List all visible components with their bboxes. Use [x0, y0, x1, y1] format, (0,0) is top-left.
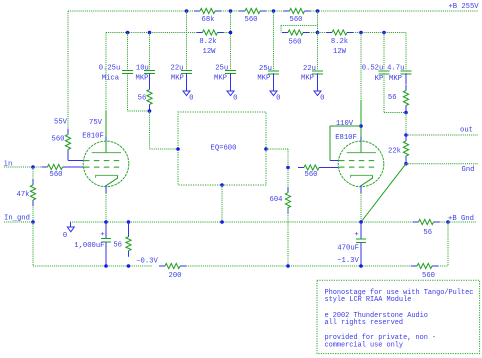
wire 604 bottom lead to bottom rail	[287, 207, 289, 266]
power rail +B: top bus wire y=11	[68, 10, 194, 12]
resistor 56 (below 10u)	[147, 84, 152, 111]
wire rail to +B Gnd node	[440, 221, 449, 223]
capacitor 0.52u KP lead	[383, 33, 385, 71]
svg-text:MKP: MKP	[301, 75, 314, 83]
resistor 56 (cathode bypass)	[128, 222, 130, 237]
junction row2 / 25u column	[229, 31, 233, 35]
junction input node / 47k	[31, 165, 35, 169]
svg-text:In_gnd: In_gnd	[4, 215, 30, 223]
svg-text:0: 0	[63, 232, 67, 240]
svg-text:8.2k: 8.2k	[331, 38, 348, 46]
wire to V2 g1	[325, 167, 338, 169]
svg-text:+: +	[354, 231, 358, 239]
svg-text:75V: 75V	[89, 119, 103, 127]
cathode/ground rail y=222	[70, 221, 412, 223]
wire EQ bottom pin to cathode rail	[221, 185, 223, 222]
capacitor 22u MKP (right)	[312, 71, 323, 74]
resistor 68k (plate supply)	[194, 8, 221, 13]
junction top bus / 22u cap column	[185, 9, 189, 13]
wire right 25u cap column from top bus	[273, 11, 275, 70]
electrolytic capacitor 1,000uF	[101, 222, 111, 266]
svg-text:Gnd: Gnd	[462, 166, 475, 174]
wire output column upper	[405, 113, 407, 136]
junction In_gnd node	[31, 220, 35, 224]
svg-text:MKP: MKP	[214, 75, 227, 83]
svg-text:0.25u: 0.25u	[99, 65, 121, 73]
capacitor 22u MKP (left)	[181, 70, 192, 73]
resistor 560 (top bus second)	[284, 8, 311, 13]
tube V2 E810F	[338, 141, 384, 187]
wire +B Gnd stub	[448, 221, 476, 223]
resistor 56 cathode bypass zigzag	[126, 231, 131, 257]
svg-text:55V: 55V	[54, 118, 68, 126]
svg-text:560: 560	[305, 171, 318, 179]
wire V1 cathode stub (blue)	[105, 185, 107, 193]
wire In_gnd down to bottom rail	[32, 222, 34, 266]
svg-text:+: +	[100, 231, 104, 239]
zero-volt reference probe	[67, 222, 74, 232]
svg-text:56: 56	[423, 229, 432, 237]
svg-text:+B Gnd: +B Gnd	[448, 215, 474, 223]
junction rail / 56 bypass	[127, 220, 131, 224]
wire EQ input vertical	[149, 111, 151, 149]
svg-text:560: 560	[245, 16, 258, 24]
svg-text:110V: 110V	[336, 120, 354, 128]
wire second row right to corner	[353, 32, 406, 34]
wire 22u cap column from top bus	[186, 11, 188, 70]
svg-text:56: 56	[113, 242, 122, 250]
wire 10u bottom lead	[149, 73, 151, 83]
svg-text:E810F: E810F	[335, 134, 357, 142]
junction V2 plate / screen strap	[359, 124, 363, 128]
wire V2 plate feed lower (solid)	[360, 100, 362, 137]
resistor 560 (V2 grid stopper)	[298, 165, 325, 170]
svg-text:560: 560	[50, 171, 63, 179]
junction row2 / 0.25u cap	[126, 31, 130, 35]
svg-text:560: 560	[290, 16, 303, 24]
capacitor 25u MKP (left)	[225, 70, 236, 73]
svg-text:out: out	[460, 127, 473, 135]
junction 0.52u/56/output column	[404, 111, 408, 115]
svg-text:MKP: MKP	[136, 75, 149, 83]
junction bottom rail / 470uF	[359, 264, 363, 268]
svg-text:commercial use only: commercial use only	[325, 341, 404, 349]
wire bottom rail right end	[438, 265, 448, 267]
wire input to V1 g1	[69, 166, 84, 168]
resistor 560 (bypassed)	[282, 30, 309, 35]
junction bottom rail / 1,000uF	[104, 264, 108, 268]
wire In_gnd port	[4, 221, 33, 223]
wire EQ output horizontal	[266, 148, 288, 150]
wire second row right start	[318, 32, 327, 34]
ground (22u left)	[183, 91, 193, 103]
wire right column down from row2 corner	[405, 33, 407, 71]
wire 25u ground lead	[230, 73, 232, 91]
svg-text:in: in	[4, 160, 13, 168]
wire second row left end segment	[224, 32, 231, 34]
wire 22u right column from row2	[317, 33, 319, 71]
wire bypassed 560 right lead to column	[309, 32, 318, 34]
svg-text:25u: 25u	[259, 65, 272, 73]
wire EQ input horizontal	[150, 148, 179, 150]
svg-text:560: 560	[52, 135, 65, 143]
wire 47k bottom lead	[32, 207, 34, 223]
svg-text:MKP: MKP	[171, 75, 184, 83]
wire screen strap into V2 g2	[330, 160, 338, 162]
wire bottom rail middle	[186, 265, 411, 267]
svg-text:47k: 47k	[17, 191, 30, 199]
wire 47k top lead	[32, 167, 34, 179]
junction bottom rail / 56 bypass	[127, 264, 131, 268]
svg-text:10u: 10u	[136, 65, 149, 73]
svg-text:−0.3V: −0.3V	[136, 257, 158, 265]
wire V1 plate feed vertical	[105, 33, 107, 112]
capacitor 0.52u KP	[379, 71, 390, 74]
svg-text:0.52u: 0.52u	[362, 65, 384, 73]
ground (22u right)	[314, 91, 324, 103]
svg-text:560: 560	[422, 272, 435, 280]
junction top bus / right 25u cap column	[272, 9, 276, 13]
junction EQ input pin	[176, 147, 180, 151]
svg-text:25u: 25u	[215, 65, 228, 73]
wire EQ output corner down	[287, 149, 289, 168]
svg-text:12W: 12W	[333, 48, 347, 56]
svg-text:0: 0	[276, 95, 280, 103]
resistor 8.2k 12W (left)	[197, 30, 224, 35]
wire right 25u ground lead	[273, 73, 275, 91]
wire right 22u ground lead	[317, 73, 319, 91]
svg-text:604: 604	[270, 196, 283, 204]
junction Gnd node	[404, 162, 408, 166]
wire second row left (8.2k row) horizontal	[106, 32, 197, 34]
wire V1 plate feed lower (solid)	[105, 111, 107, 137]
svg-text:−1.3V: −1.3V	[337, 257, 359, 265]
annotation box	[317, 280, 480, 353]
svg-text:56: 56	[388, 94, 397, 102]
svg-text:E810F: E810F	[82, 133, 104, 141]
wire 560 bypass loop top	[281, 25, 318, 27]
resistor 560 (input series)	[42, 164, 69, 169]
svg-text:Mica: Mica	[102, 75, 120, 83]
svg-text:560: 560	[289, 39, 302, 47]
junction 0.25u/56 node to EQ input	[148, 109, 152, 113]
svg-text:68k: 68k	[202, 16, 215, 24]
wire out	[406, 134, 478, 136]
junction EQ output pin	[264, 147, 268, 151]
wire screen lead vertical	[67, 155, 69, 161]
junction V2 cathode / 470uF / diagonal	[359, 220, 363, 224]
wire 25u cap column from top bus	[230, 11, 232, 70]
svg-text:style LCR RIAA Module: style LCR RIAA Module	[325, 296, 412, 304]
wire 0.52u bottom to 56 node	[384, 112, 406, 114]
wire V2 plate feed vertical	[360, 33, 362, 101]
svg-text:1,000uF: 1,000uF	[74, 242, 104, 250]
wire top bus segment 2	[221, 10, 239, 12]
capacitor 0.25u Mica	[122, 70, 133, 73]
svg-text:12W: 12W	[203, 48, 217, 56]
svg-text:MKP: MKP	[257, 75, 270, 83]
svg-text:MKP: MKP	[389, 75, 402, 83]
junction top bus / 560 bypass column	[316, 9, 320, 13]
wire input: in port	[4, 166, 42, 168]
junction +B Gnd	[446, 220, 450, 224]
capacitor 10u MKP	[144, 70, 155, 73]
wire top bus segment 4 to +B 255V	[311, 10, 479, 12]
capacitor 25u MKP (right)	[268, 71, 279, 74]
junction row2 right / 0.52u cap	[382, 31, 386, 35]
junction row2 / 10u cap	[148, 31, 152, 35]
wire 4.7u bottom lead	[405, 73, 407, 84]
svg-text:0: 0	[233, 95, 237, 103]
svg-text:EQ=600: EQ=600	[211, 145, 237, 153]
bottom rail y=266	[33, 265, 152, 267]
wire +B Gnd down to bottom rail	[447, 222, 449, 266]
capacitor 4.7u MKP	[401, 71, 412, 74]
junction bypass column / row2 right / 22u cap	[316, 31, 320, 35]
wire V2 plate blue stub	[360, 137, 362, 142]
svg-text:200: 200	[169, 272, 182, 280]
capacitor 10u MKP lead	[149, 33, 151, 71]
ground (25u right)	[270, 91, 280, 103]
wire V1 plate blue stub	[105, 137, 107, 142]
wire 0.25u bottom lead	[127, 73, 129, 111]
junction EQ bottom pin	[220, 183, 224, 187]
svg-text:4.7u: 4.7u	[387, 65, 404, 73]
wire V2 cathode stub (blue)	[360, 185, 362, 193]
ground (25u left)	[227, 91, 237, 103]
wire screen lead into tube V1 g2	[68, 160, 84, 162]
tube V1 E810F	[83, 141, 129, 187]
svg-text:470uF: 470uF	[337, 245, 359, 253]
junction row2 right / V2 plate feed	[359, 31, 363, 35]
svg-text:+B 255V: +B 255V	[448, 3, 479, 11]
wire 604 top lead	[287, 168, 289, 187]
svg-text:22k: 22k	[388, 148, 401, 156]
resistor 560 (top bus first)	[239, 8, 266, 13]
EQ module box	[178, 112, 266, 185]
junction bottom rail / 604	[286, 264, 290, 268]
resistor 200	[159, 263, 186, 268]
resistor 560 (bottom)	[411, 263, 438, 268]
wire 560 bypass loop left side	[280, 26, 282, 33]
wire Gnd	[406, 163, 478, 165]
wire diagonal Gnd node to V2 cathode junction	[361, 164, 406, 222]
wire screen strap top	[330, 125, 361, 127]
resistor 560 (screen feed, node 55V)	[65, 129, 70, 156]
svg-text:KP: KP	[375, 75, 384, 83]
resistor 22k (output load)	[403, 135, 408, 162]
resistor 8.2k 12W (right)	[326, 30, 353, 35]
wire top bus segment 3	[266, 10, 284, 12]
resistor 47k (input load)	[30, 179, 35, 206]
wire 0.25u bottom to 56 junction	[128, 110, 150, 112]
svg-text:0: 0	[320, 95, 324, 103]
wire 0.52u bottom lead	[383, 73, 385, 112]
junction V1 cathode / 1,000uF	[104, 220, 108, 224]
resistor 56 (B gnd)	[413, 219, 440, 224]
wire 560-bypass column from top bus	[317, 11, 319, 33]
svg-text:8.2k: 8.2k	[199, 38, 216, 46]
svg-text:56: 56	[138, 94, 147, 102]
electrolytic capacitor 470uF	[356, 222, 366, 266]
svg-text:0: 0	[189, 95, 193, 103]
capacitor 0.25u Mica lead	[127, 33, 129, 71]
wire 22u ground lead	[186, 73, 188, 91]
junction EQ output / 604 node	[286, 166, 290, 170]
resistor 56 (output filter)	[403, 85, 408, 112]
junction out node	[404, 133, 408, 137]
wire left vertical from top bus to screen resistor	[67, 11, 69, 129]
junction rail / EQ bottom	[220, 220, 224, 224]
svg-text:all rights reserved: all rights reserved	[325, 319, 404, 327]
junction top bus / 25u cap column	[229, 9, 233, 13]
wire screen strap left side	[329, 126, 331, 161]
svg-text:22u: 22u	[303, 65, 316, 73]
svg-text:22u: 22u	[171, 65, 184, 73]
resistor 604	[285, 187, 290, 214]
